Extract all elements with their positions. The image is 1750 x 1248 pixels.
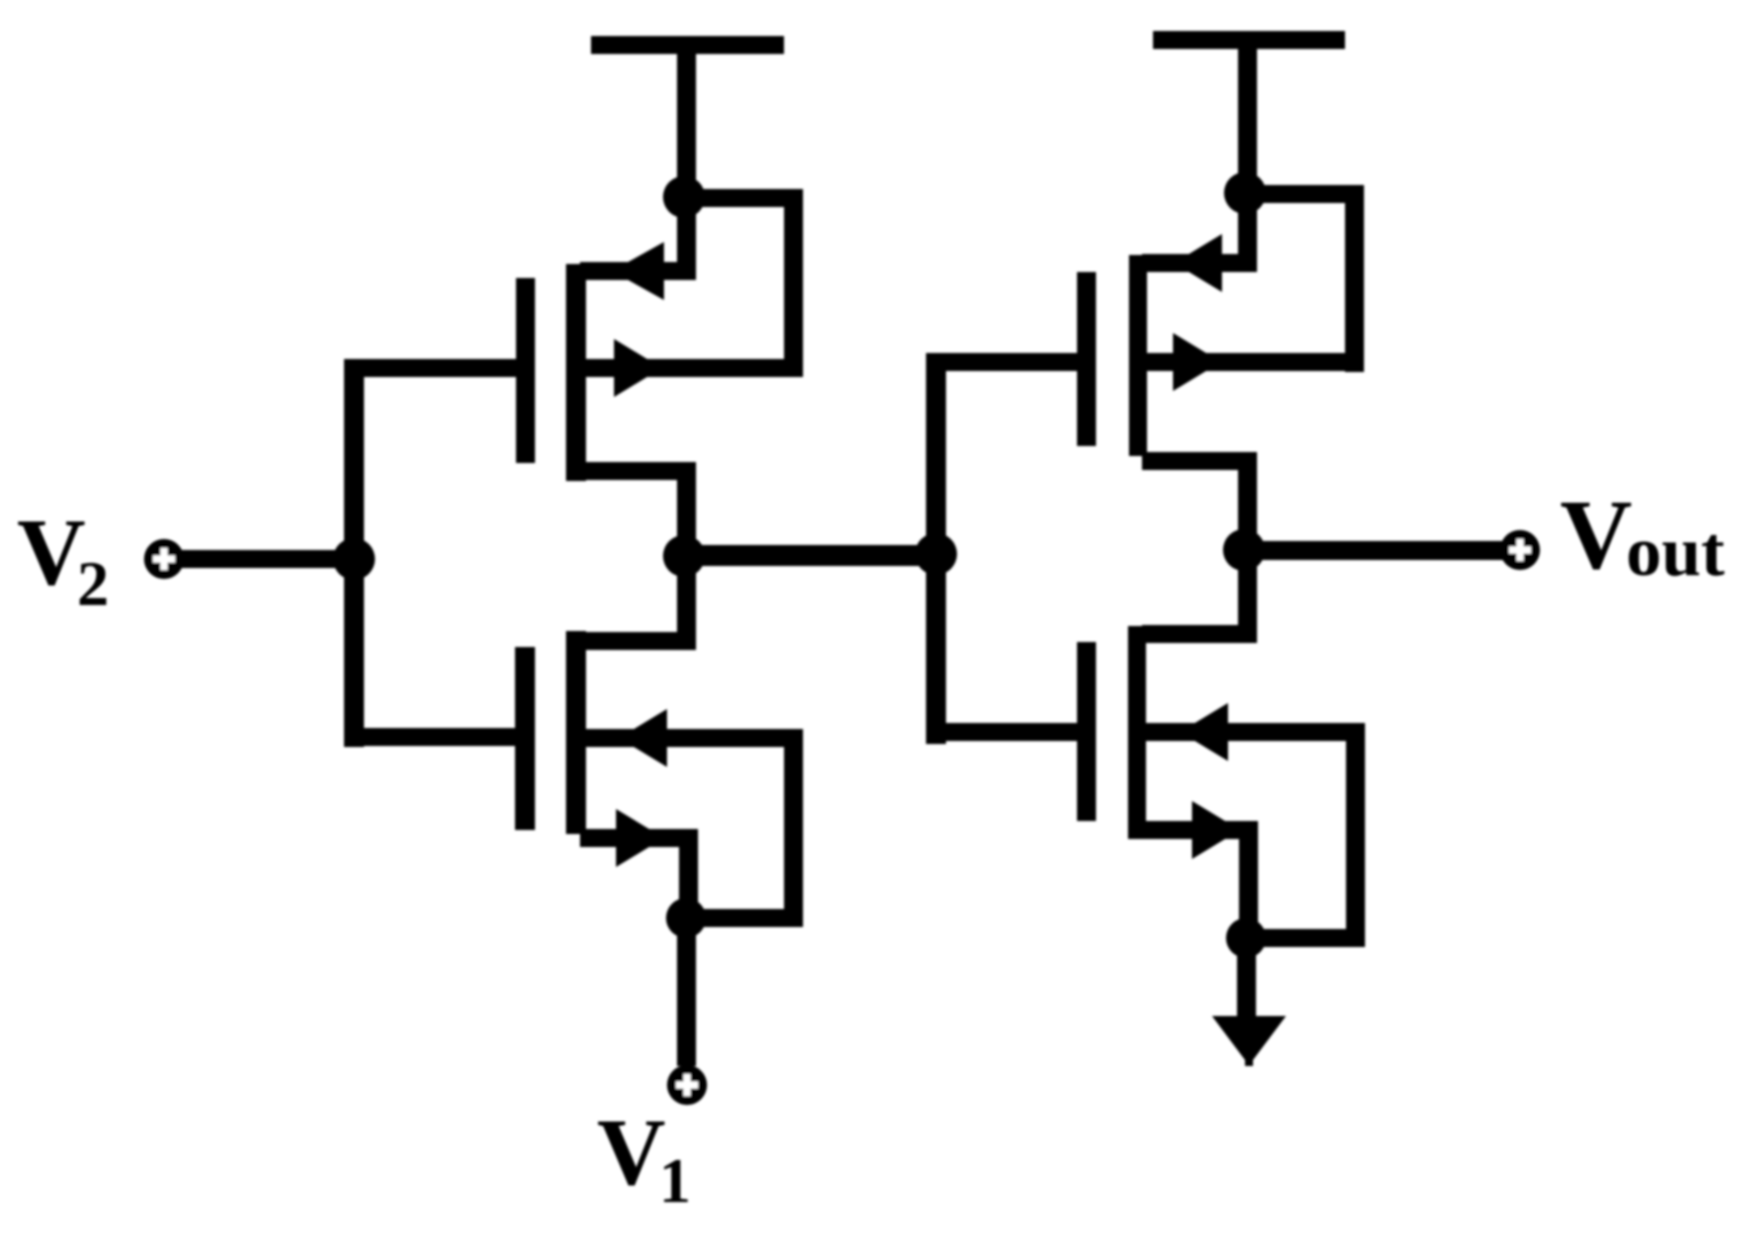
transistor M2 gate bar (515, 647, 535, 830)
transistor M1 gate bar (516, 278, 535, 463)
wire M2 source lead horizontal (580, 829, 698, 847)
wire M3 drain lead vertical (1238, 186, 1257, 272)
svg-text:2: 2 (77, 548, 109, 619)
arrow M1 drain (points left) (612, 242, 664, 300)
transistor M4 channel bar (1128, 626, 1146, 839)
arrow M4 source (points right) (1192, 801, 1240, 859)
arrow M1 source (points right) (614, 339, 662, 397)
wire M4 source lead vertical to node F (1239, 821, 1258, 938)
svg-text:V: V (17, 499, 86, 605)
terminal V1 (667, 1065, 707, 1105)
arrow M2 body (points left) (619, 709, 667, 767)
wire gate bus (stage 1) (344, 359, 364, 747)
wire loop right M4 (1346, 723, 1365, 947)
svg-text:1: 1 (659, 1145, 691, 1216)
ground (1212, 1016, 1286, 1066)
wire node B to stage 2 gate (684, 545, 936, 566)
node C junction dot (666, 898, 706, 938)
wire M2 body lead (580, 729, 803, 747)
wire M3 bottom lead vertical to node E (1238, 452, 1257, 550)
arrow M3 source (points right) (1173, 333, 1221, 391)
wire gate bottom (stage 1) (344, 728, 519, 746)
node B junction dot (663, 535, 705, 577)
wire M3 drain lead horizontal (1142, 254, 1257, 272)
wire loop bottom M2 (686, 909, 803, 927)
svg-text:V: V (1560, 479, 1632, 590)
wire M1 source lead (580, 359, 803, 377)
supply rail VDD (stage 2) (1153, 31, 1345, 49)
supply rail VDD (stage 1) (591, 36, 784, 54)
wire M4 source lead horizontal (1142, 821, 1258, 839)
wire loop bottom M4 (1246, 929, 1365, 947)
wire loop right M2 (784, 729, 803, 927)
wire gate bottom (stage 2) (926, 723, 1081, 741)
wire M1 drain lead horizontal (580, 262, 696, 280)
wire gate top (stage 2) (926, 353, 1081, 371)
arrow M2 source (points right) (616, 809, 664, 867)
wire M2 drain lead horizontal (580, 632, 696, 650)
node V2 junction dot (333, 538, 375, 580)
arrow M4 body (points left) (1180, 703, 1228, 761)
wire loop right M1 (784, 189, 803, 377)
svg-text:V: V (597, 1099, 666, 1205)
wire gate bus (stage 2) (926, 353, 946, 744)
transistor M4 gate bar (1077, 642, 1096, 821)
node A junction dot (663, 176, 705, 218)
terminal Vout (1500, 530, 1540, 570)
wire loop top M1 (684, 189, 803, 207)
wire M4 drain lead vertical to node E (1238, 548, 1257, 643)
wire VDD stem to node A (677, 45, 696, 197)
wire node F to ground (1237, 938, 1256, 1016)
terminal V2 (144, 539, 184, 579)
wire M1 bottom lead vertical to node B (677, 462, 696, 565)
node F junction dot (1226, 918, 1266, 958)
wire loop top M3 (1245, 185, 1364, 203)
wire M3 bottom lead horizontal (1142, 452, 1257, 470)
transistor M1 channel bar (566, 264, 586, 481)
node E junction dot (1223, 529, 1265, 571)
arrow M3 drain (points left) (1174, 234, 1222, 292)
wire M2 drain lead vertical to node B (677, 554, 696, 650)
wire M4 body lead (1142, 723, 1365, 741)
wire node C to V1 terminal (677, 918, 696, 1066)
wire M2 source lead vertical to node C (679, 829, 698, 918)
wire V2 input stub (164, 550, 354, 568)
node D junction dot (1224, 172, 1266, 214)
transistor M2 channel bar (566, 631, 586, 834)
transistor M3 gate bar (1077, 272, 1096, 446)
wire M1 drain lead vertical (677, 190, 696, 280)
wire M3 source lead (1142, 353, 1364, 371)
wire M4 drain lead horizontal (1142, 625, 1256, 643)
wire Vout (1244, 541, 1520, 560)
wire M1 bottom lead horizontal (580, 462, 696, 480)
transistor M3 channel bar (1129, 255, 1147, 456)
svg-text:out: out (1626, 513, 1725, 591)
wire loop right M3 (1345, 185, 1364, 372)
node stage2-in junction dot (915, 533, 957, 575)
wire VDD stem to node D (1238, 40, 1257, 193)
wire gate top (stage 1) (344, 359, 520, 377)
